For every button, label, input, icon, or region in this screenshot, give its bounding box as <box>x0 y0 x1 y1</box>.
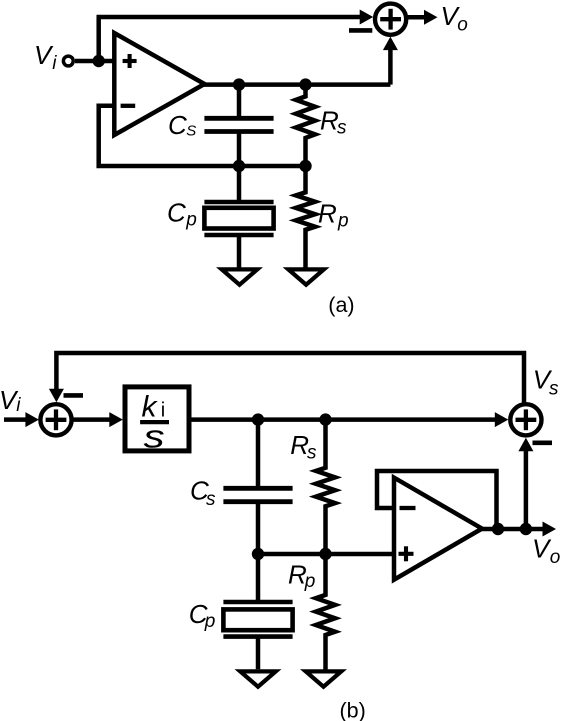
svg-text:p: p <box>337 211 349 232</box>
svg-text:s: s <box>144 418 165 454</box>
wire U2 output up into S3 <box>518 438 533 529</box>
crystal capacitor Cp (fig b) <box>223 554 292 669</box>
junction lower rail / Cp <box>233 160 245 172</box>
capacitor CS <box>204 85 273 166</box>
svg-text:R: R <box>320 105 339 135</box>
resistor Rs (fig a) <box>296 85 315 166</box>
label C_s (fig b) <box>190 476 216 510</box>
wire U2 output to Vo <box>482 522 556 537</box>
svg-text:C: C <box>168 110 187 140</box>
svg-text:(a): (a) <box>328 293 354 317</box>
op-amp U2 <box>394 478 482 580</box>
crystal capacitor Cp (fig a) <box>204 166 273 269</box>
svg-text:i: i <box>52 53 57 74</box>
summing junction S2 <box>40 404 71 435</box>
svg-text:C: C <box>167 198 186 228</box>
junction Vi node <box>93 55 105 67</box>
junction main line / Cs <box>252 413 264 425</box>
svg-text:s: s <box>307 443 317 464</box>
wire lower rail to U2 noninverting input <box>258 552 396 557</box>
svg-text:s: s <box>549 379 559 400</box>
svg-text:S: S <box>186 123 196 140</box>
resistor Rp (fig a) <box>296 166 315 269</box>
node Vi input terminal (fig a) <box>63 56 73 66</box>
svg-text:R: R <box>318 199 337 229</box>
svg-text:V: V <box>34 40 54 70</box>
label C_p (fig a) <box>167 198 197 231</box>
svg-text:s: s <box>206 489 216 510</box>
summing junction S3 <box>510 404 541 435</box>
capacitor Cs (fig b) <box>223 420 292 554</box>
ground under Rp (fig a) <box>288 269 324 284</box>
label R_s (fig a) <box>320 105 347 138</box>
label V_i (fig b) <box>0 385 21 416</box>
minus sign at S3 bottom input <box>533 440 553 445</box>
svg-text:o: o <box>550 547 561 568</box>
svg-text:p: p <box>304 571 316 592</box>
label C_S <box>168 110 196 140</box>
junction U1 output / CS <box>233 78 245 90</box>
wire Vi into summing junction S2 <box>4 412 39 427</box>
caption (a) <box>328 293 354 317</box>
ground under Rp (fig b) <box>306 671 342 686</box>
ground under Cp (fig a) <box>222 269 258 284</box>
junction lower rail / Cp (fig b) <box>252 548 264 560</box>
junction lower rail / Rp <box>299 160 311 172</box>
summing junction S1 <box>375 4 406 35</box>
wire Vi terminal to op-amp noninverting input <box>75 59 116 64</box>
wire lower rail (fig a) <box>97 164 306 169</box>
wire feedback rail from Vs node to S2 <box>49 353 524 403</box>
svg-text:s: s <box>337 117 347 138</box>
label V_s <box>533 364 559 399</box>
label V_i (fig a) <box>34 40 57 74</box>
label V_o (fig b) <box>532 534 560 569</box>
svg-text:p: p <box>204 611 216 632</box>
wire U2 inverting input feedback loop <box>377 471 497 529</box>
wire integrator to summing junction S3 <box>191 412 508 427</box>
wire feedforward rail into summing junction S1 <box>97 10 374 25</box>
caption (b) <box>340 698 366 721</box>
wire U1 output line <box>203 82 390 87</box>
integrator block ki/s <box>125 387 189 454</box>
wire S2 to integrator <box>71 412 123 427</box>
wire S1 output to Vo <box>406 10 438 25</box>
minus sign at S2 top input <box>64 393 84 398</box>
svg-text:o: o <box>457 15 468 36</box>
op-amp U1 <box>114 33 204 135</box>
svg-text:(b): (b) <box>340 698 366 721</box>
junction U2 output / Vs branch <box>520 523 532 535</box>
wire U1 inverting input down to lower rail <box>99 106 116 168</box>
resistor Rp (fig b) <box>316 554 335 671</box>
junction lower rail / Rp (fig b) <box>319 548 331 560</box>
svg-text:p: p <box>185 210 197 231</box>
junction main line / Rs <box>319 413 331 425</box>
wire output branch up into S1 <box>383 37 398 85</box>
label R_p (fig b) <box>288 559 315 592</box>
wire Vi node up to feedforward rail <box>96 17 101 61</box>
label V_o (fig a) <box>441 1 468 36</box>
label C_p (fig b) <box>189 599 216 632</box>
label R_p (fig a) <box>318 199 349 232</box>
ground under Cp (fig b) <box>240 671 276 686</box>
junction U2 feedback / output <box>492 523 504 535</box>
junction U1 output / Rs <box>299 78 311 90</box>
svg-text:i: i <box>16 395 21 416</box>
minus sign at S1 input <box>349 28 372 33</box>
label R_s (fig b) <box>290 430 317 463</box>
resistor Rs (fig b) <box>316 420 335 554</box>
